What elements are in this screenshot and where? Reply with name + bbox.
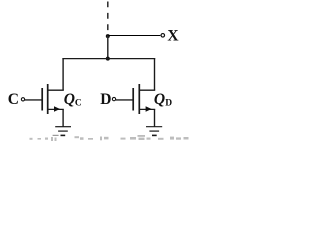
- transistor QD: [133, 84, 155, 114]
- wire: D gate lead: [116, 99, 133, 101]
- ground (left): [55, 127, 71, 136]
- node dot N2 (drain bus junction): [106, 57, 110, 61]
- wire: node to X terminal: [108, 35, 161, 37]
- svg-text:D: D: [165, 99, 172, 109]
- wire: QC drain riser: [62, 58, 64, 90]
- wire: QD drain riser: [154, 58, 156, 90]
- wire: QD source to ground: [154, 109, 156, 126]
- node dot N1 (output node): [106, 34, 110, 38]
- transistor QC: [42, 84, 64, 114]
- terminal circle X: [161, 34, 165, 38]
- caption fragment (cut-off text at bottom): [30, 135, 189, 141]
- arrow on QC source: [54, 106, 60, 112]
- terminal circle C: [21, 98, 24, 101]
- svg-text:Q: Q: [64, 91, 75, 108]
- wire: dashed supply stub: [107, 2, 109, 37]
- svg-text:Q: Q: [154, 91, 165, 108]
- terminal circle D: [112, 97, 115, 100]
- svg-text:C: C: [75, 98, 82, 108]
- wire: drain bus horizontal: [62, 58, 155, 60]
- ground (right): [146, 127, 162, 136]
- svg-text:X: X: [167, 27, 179, 44]
- wire: QC source to ground: [62, 109, 64, 126]
- wire: N1 to N2 vertical: [107, 36, 109, 59]
- wire: C gate lead: [25, 99, 42, 101]
- arrow on QD source: [146, 106, 152, 112]
- svg-text:D: D: [100, 91, 111, 108]
- svg-text:C: C: [8, 91, 19, 108]
